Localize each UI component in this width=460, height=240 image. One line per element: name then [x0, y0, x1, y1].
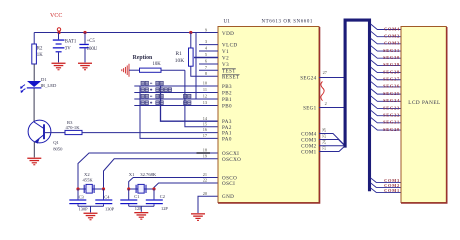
pin 2 SEG1: [303, 101, 345, 112]
capacitor C4 130P: [95, 189, 114, 212]
resistor R2: [32, 44, 43, 64]
wire: key row pin10: [134, 85, 218, 87]
svg-text:26: 26: [321, 128, 326, 132]
wire: panel COM1: [371, 188, 402, 193]
pin 24 COM2: [301, 140, 344, 149]
LED D1 IR_LED: [20, 77, 57, 93]
IR receive waves symbol: [122, 64, 129, 77]
svg-text:8: 8: [205, 71, 207, 76]
ground (battery): [52, 63, 66, 71]
svg-text:SEG23: SEG23: [383, 105, 400, 110]
label key row 3: [141, 94, 191, 98]
svg-text:1K: 1K: [37, 53, 43, 58]
svg-text:C4: C4: [104, 194, 110, 199]
svg-text:3: 3: [205, 39, 207, 44]
wire: key column to PA0 pin 17: [140, 86, 218, 138]
node: C5 junction dot: [83, 31, 86, 34]
wire: pin 18 emphasis segment: [197, 152, 211, 154]
svg-text:10K: 10K: [175, 58, 184, 64]
svg-text:18: 18: [203, 148, 207, 153]
wire: reception down to PA2 pin 15: [185, 70, 218, 127]
pin 19 OSCXO: [203, 153, 242, 162]
svg-text:IR_LED: IR_LED: [41, 83, 58, 88]
wire: panel SEG23: [371, 103, 402, 110]
battery BAT1 3V: [53, 39, 77, 52]
svg-text:4: 4: [205, 46, 208, 51]
label key row 2: [141, 88, 172, 92]
capacitor C2 12P: [146, 189, 169, 211]
svg-text:7: 7: [205, 65, 208, 70]
wire: panel SEG25: [371, 89, 402, 96]
svg-text:17: 17: [203, 133, 208, 138]
pin 10 PB3: [203, 81, 232, 90]
svg-text:+C5: +C5: [87, 39, 96, 44]
svg-text:V3: V3: [222, 62, 229, 68]
svg-text:14: 14: [203, 116, 208, 121]
svg-text:PA0: PA0: [222, 136, 232, 142]
svg-text:COM3: COM3: [384, 41, 400, 46]
bus (thick): [345, 20, 369, 191]
wire: panel SEG21: [371, 117, 402, 124]
svg-text:SEG26: SEG26: [383, 84, 400, 89]
wire: panel SEG26: [371, 81, 402, 88]
svg-text:SEG29: SEG29: [383, 62, 400, 67]
svg-text:25: 25: [321, 134, 326, 138]
pin 9 VDD: [205, 28, 234, 37]
svg-text:22: 22: [203, 178, 207, 183]
svg-text:130P: 130P: [79, 207, 89, 212]
wire: X2 node line: [78, 188, 104, 190]
label key row 1: [141, 81, 163, 85]
svg-text:12P: 12P: [161, 206, 168, 211]
pin 18 OSCXI: [203, 148, 240, 157]
pin 27 SEG24: [300, 70, 345, 81]
pin 17 PA0: [203, 133, 232, 142]
svg-text:R2: R2: [37, 47, 43, 52]
wire: panel COM2: [371, 31, 402, 38]
svg-text:10K: 10K: [153, 62, 162, 67]
pin 25 COM3: [301, 134, 344, 146]
ground (X1 caps): [134, 212, 148, 220]
pin 16 PA1: [203, 127, 232, 136]
svg-text:20: 20: [203, 191, 207, 196]
svg-text:V2: V2: [222, 56, 229, 62]
op-amp U1 IC body NT6613: [218, 19, 320, 204]
ground (IC GND): [191, 213, 205, 221]
svg-text:SEG22: SEG22: [383, 112, 400, 117]
wire: rail to battery: [58, 33, 60, 40]
svg-text:COM2: COM2: [384, 33, 400, 38]
svg-text:32.768K: 32.768K: [140, 172, 157, 177]
ground (Q1 emitter): [27, 158, 41, 166]
bus ripper squiggle: [321, 82, 324, 101]
crystal X1 32.768K: [129, 172, 157, 193]
wire: rail down to PB2 row: [195, 33, 197, 100]
wire: panel SEG24: [371, 96, 402, 103]
wire: rail to C5: [84, 33, 86, 44]
pin 21 OSCO: [203, 172, 237, 181]
svg-text:8050: 8050: [53, 147, 63, 152]
svg-text:PB1: PB1: [222, 97, 232, 103]
pin 3 VLCD: [199, 39, 237, 48]
svg-text:5: 5: [205, 52, 207, 57]
svg-text:SEG28: SEG28: [383, 69, 400, 74]
wire: C3-C4 bottom link to ground: [78, 206, 104, 212]
wire: C5 to ground: [84, 48, 86, 62]
svg-text:13: 13: [203, 100, 207, 105]
wire: panel COM2: [371, 183, 402, 188]
transistor Q1 8050: [28, 120, 63, 152]
svg-text:GND: GND: [222, 194, 234, 200]
svg-text:16: 16: [203, 127, 208, 132]
svg-text:100U: 100U: [87, 47, 98, 52]
VCC: [50, 13, 62, 33]
wire: panel SEG22: [371, 110, 402, 117]
wire: panel SEG31: [371, 45, 402, 52]
svg-text:R1: R1: [176, 51, 183, 57]
wire: X1 node line: [129, 188, 154, 190]
svg-text:Q1: Q1: [53, 140, 59, 145]
svg-text:RESET: RESET: [222, 74, 240, 80]
pin 6 V3: [199, 59, 229, 68]
wire: Q1 emitter to ground: [33, 142, 35, 158]
pin 8 RESET: [205, 71, 240, 80]
wire: panel SEG27: [371, 74, 402, 81]
svg-text:LCD PANEL: LCD PANEL: [408, 100, 440, 106]
wire: panel SEG20: [371, 124, 402, 131]
pin 12 PB1: [203, 94, 232, 103]
svg-text:VDD: VDD: [222, 31, 234, 37]
pin 4 V1: [199, 46, 229, 55]
wire: panel COM3: [371, 38, 402, 45]
svg-text:SEG31: SEG31: [383, 48, 400, 53]
svg-text:SEG24: SEG24: [300, 75, 316, 81]
svg-text:SEG1: SEG1: [303, 105, 317, 111]
svg-text:BAT1: BAT1: [65, 39, 77, 44]
wire: key row pin13: [134, 105, 218, 107]
svg-text:Reption: Reption: [133, 55, 153, 61]
wire: key column to PA3 pin 14: [161, 86, 219, 121]
svg-text:11: 11: [203, 87, 207, 92]
node: X1 left dot: [127, 187, 130, 190]
wire: rail down to R2: [33, 33, 35, 45]
svg-text:COM4: COM4: [384, 26, 400, 31]
pin 7 TEST: [199, 65, 236, 74]
pin 5 V2: [194, 52, 229, 61]
svg-text:SEG27: SEG27: [383, 77, 400, 82]
svg-text:COM1: COM1: [301, 149, 317, 155]
resistor 10K (reception): [129, 62, 185, 72]
pin 15 PA2: [203, 121, 232, 130]
ground (X2 caps): [84, 213, 98, 221]
wire: X1 right node up to OSCI pin 22: [154, 183, 218, 189]
svg-text:C1: C1: [134, 194, 139, 199]
svg-text:23: 23: [321, 146, 326, 150]
svg-text:21: 21: [203, 172, 207, 177]
svg-text:COM1: COM1: [384, 188, 400, 193]
svg-text:6: 6: [205, 59, 208, 64]
svg-text:U1: U1: [224, 19, 231, 25]
node: X2 right dot: [102, 187, 105, 190]
svg-text:VLCD: VLCD: [222, 43, 237, 49]
wire: R2 to LED: [33, 64, 35, 81]
wire: panel COM3: [371, 178, 402, 183]
pin 22 OSCI: [203, 178, 236, 187]
svg-text:PB3: PB3: [222, 84, 232, 90]
pin 14 PA3: [203, 116, 232, 125]
svg-text:COM3: COM3: [301, 137, 317, 143]
svg-text:SEG21: SEG21: [383, 120, 400, 125]
wire: panel SEG29: [371, 60, 402, 67]
svg-text:19: 19: [203, 153, 207, 158]
pin 11 PB2: [203, 87, 232, 96]
svg-text:27: 27: [323, 70, 328, 75]
svg-text:130P: 130P: [105, 207, 115, 212]
capacitor C1 12P: [120, 189, 142, 211]
wire: GND pin 20 to ground: [198, 196, 218, 213]
svg-text:12: 12: [203, 94, 207, 99]
wire: X2 right node up to OSCXO pin 19: [104, 159, 219, 189]
svg-text:2: 2: [325, 101, 327, 106]
svg-text:D1: D1: [41, 77, 47, 82]
svg-text:10: 10: [203, 81, 207, 86]
wire: panel COM4: [371, 24, 402, 31]
svg-text:SEG24: SEG24: [383, 98, 400, 103]
node: R1 junction dot: [189, 31, 192, 34]
wire: key row pin11: [134, 92, 218, 94]
svg-text:X1: X1: [129, 172, 135, 177]
wire: C1-C2 bottom link to ground: [129, 206, 154, 212]
wire: LED to Q1 collector: [33, 89, 35, 123]
svg-text:OSCXO: OSCXO: [222, 157, 241, 163]
svg-text:C2: C2: [160, 194, 165, 199]
wire: panel SEG28: [371, 67, 402, 74]
svg-text:V1: V1: [222, 49, 229, 55]
crystal X2 455K: [83, 172, 95, 193]
capacitor C5 100U: [79, 39, 97, 52]
wire: VCC power rail: [34, 32, 218, 34]
svg-text:PB2: PB2: [222, 91, 232, 97]
node: VCC junction dot: [57, 31, 60, 34]
wire: battery to ground: [58, 52, 60, 62]
svg-text:SEG25: SEG25: [383, 91, 400, 96]
ground (C5): [78, 63, 92, 71]
svg-text:470-1K: 470-1K: [66, 125, 81, 130]
node: X1 right dot: [152, 187, 155, 190]
wire: key row pin12: [134, 98, 218, 100]
svg-text:OSCI: OSCI: [222, 181, 235, 187]
svg-text:24: 24: [321, 140, 326, 144]
wire: X2 left node up to OSCXI pin 18: [78, 153, 218, 189]
pin 13 PB0: [203, 100, 232, 109]
capacitor C3 130P: [69, 189, 88, 212]
svg-text:NT6613 OR SN6601: NT6613 OR SN6601: [262, 20, 314, 25]
pin 23 COM1: [301, 146, 344, 155]
svg-text:15: 15: [203, 121, 207, 126]
svg-text:455K: 455K: [83, 177, 94, 182]
pin 20 GND: [203, 191, 235, 200]
svg-text:PB0: PB0: [222, 104, 232, 110]
svg-text:SEG30: SEG30: [383, 55, 400, 60]
node: X2 left dot: [76, 187, 79, 190]
pin 26 COM4: [301, 128, 344, 145]
svg-text:SEG20: SEG20: [383, 127, 400, 132]
resistor R1 10K: [175, 33, 218, 77]
svg-text:9: 9: [205, 28, 207, 33]
svg-text:VCC: VCC: [50, 13, 62, 19]
wire: panel SEG30: [371, 53, 402, 60]
label key row 4: [141, 101, 191, 105]
wire: X1 left node up to OSCO pin 21: [129, 178, 218, 190]
svg-text:3V: 3V: [65, 47, 71, 52]
svg-text:C3: C3: [79, 194, 85, 199]
LCD panel box: [401, 27, 447, 204]
resistor R3 470-1K: [45, 120, 218, 135]
